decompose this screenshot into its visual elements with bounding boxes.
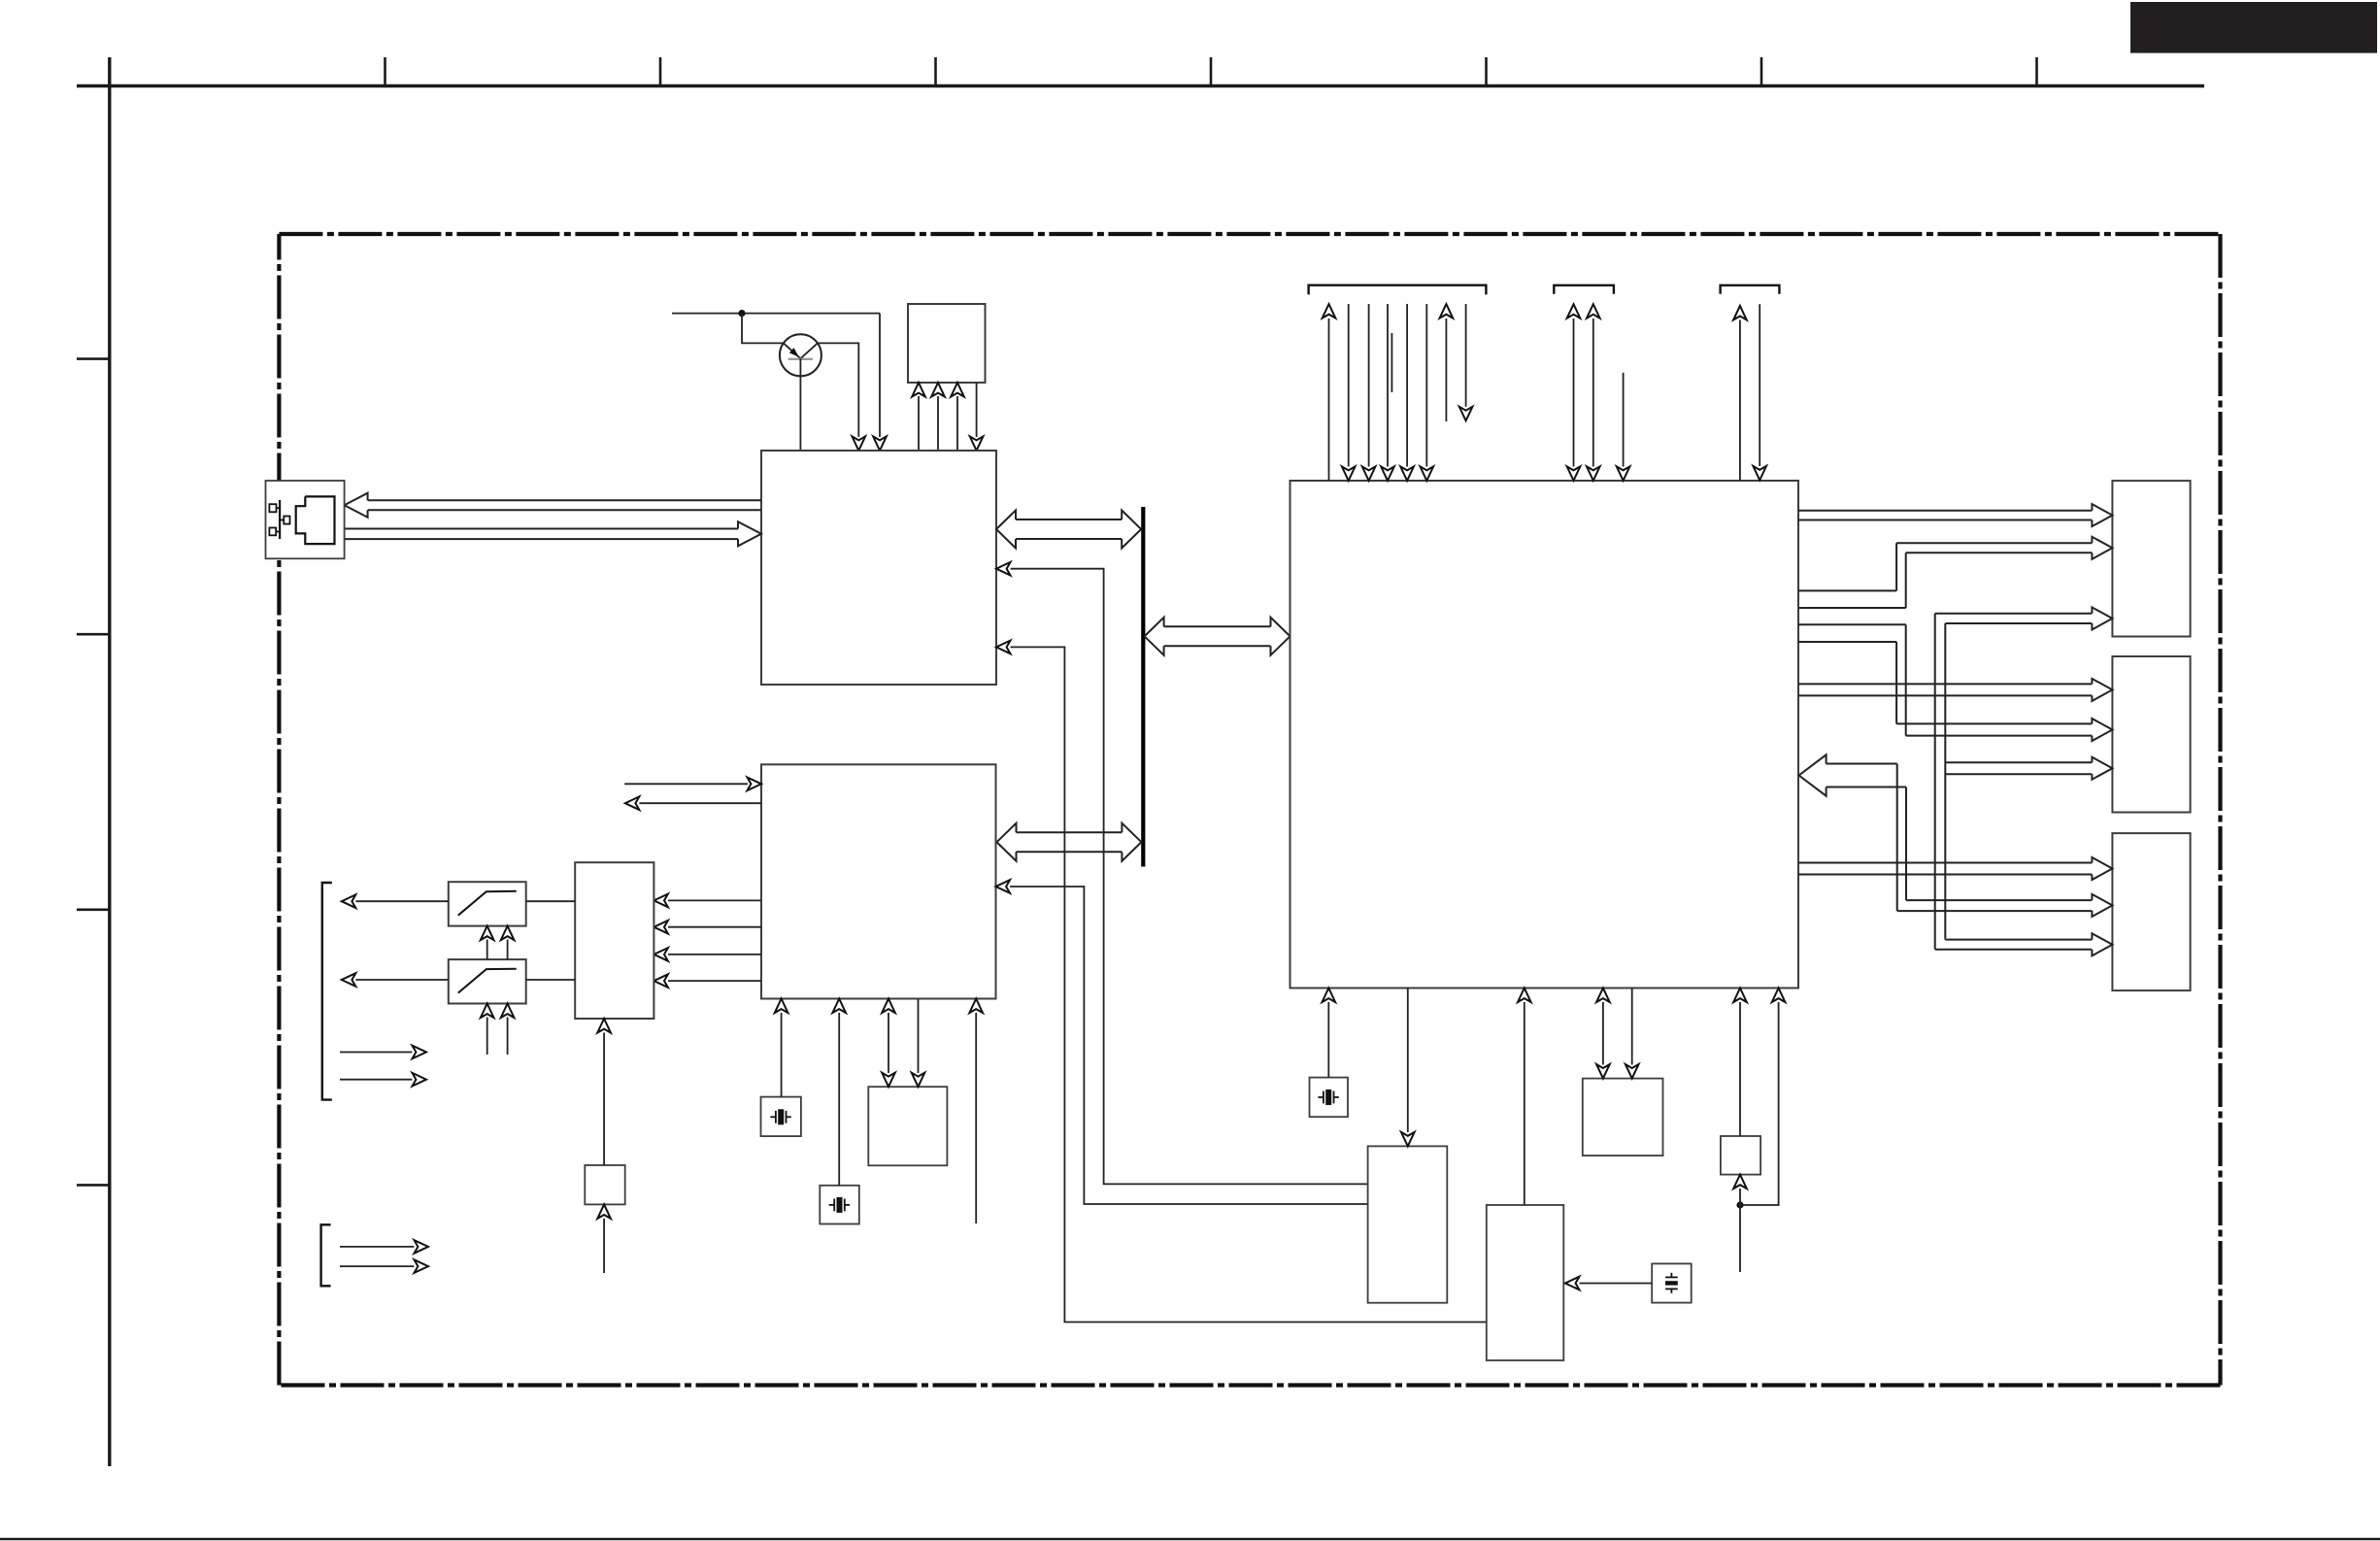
wire remote in (down arrow) [1759,304,1760,466]
wire X2 to U2 (down arrow) [976,383,978,437]
transistor Q1 collector diagonal [800,343,818,358]
hollow arrow connector J1 to U2 [345,528,738,530]
block U2 (digital interface) [761,451,996,685]
bracket serial bus [1554,285,1614,294]
wire key in 1 (down arrow) [1348,304,1350,467]
wire U2 to X2 pin1 (up arrow) [918,396,920,451]
wire control input 1 (right arrow) [340,1246,414,1248]
wire U3 to DAC ch4 (left arrow) [654,974,668,988]
wire serial data (bidirectional arrows) [1573,318,1575,467]
node power junction dot [1736,1201,1743,1208]
block U5 (DAC) [575,862,654,1019]
wire U3 to DAC ch1 (left arrow) [654,894,668,908]
wire Y1 to U3 (up arrow) [781,1013,783,1097]
wire U3 output (left arrow) [625,796,640,810]
wire key in 5 (down arrow) [1425,304,1427,467]
wire aux input 2 (right arrow) [340,1079,412,1081]
crystal Y3 box [1310,1078,1349,1118]
connector J4 box [2112,833,2190,990]
wire PLL1 feedback to U2 (left arrow) [996,562,1011,576]
wire X7 to U4 (up arrow) [1739,1002,1741,1136]
page border top rule [77,84,2204,87]
connector J1 network icon [279,500,281,539]
wire transistor right to block U2 top with arrow [818,343,858,437]
wire key in 4 (down arrow) [1406,304,1408,467]
thick bus arrow U3 to bus [1017,831,1123,833]
hollow wire U4 to J2 line2 (zig up) [1798,589,1896,591]
hollow wire U4 to J3 line2 (zig down) [1798,623,1906,625]
dash-dot board outline (right edge) [2218,234,2222,1386]
wire supply to FL2 pin a (up arrow) [486,1018,488,1055]
wire X1 to DAC (up arrow) [603,1033,605,1166]
bus bar (audio data bus) [1141,507,1145,867]
wire remote out (up arrow) [1739,320,1741,482]
wire PLL2 feedback to U2 (left arrow) [996,641,1011,654]
connector J3 box [2112,656,2190,813]
wire U4 to X6 (arrows both ends) [1602,1002,1604,1065]
connector J2 box [2112,481,2190,636]
box X5 (EEPROM) [1487,1205,1564,1360]
transistor Q1 base bar (grey) [788,358,813,360]
block U3 (DSP) [761,764,996,998]
wire supply to FL2 pin b (up arrow) [507,1018,509,1055]
wire Y2 to U3 (up arrow) [838,1013,840,1186]
top border tick marks [384,57,386,86]
block U4 (system control CPU) [1291,481,1799,988]
oscillator box X2 [908,304,986,383]
wire X5 to U4 (up arrow) [1524,1002,1525,1205]
wire supply to X1 (up arrow) [603,1219,605,1273]
wire U3 to X3 (down arrow) [918,999,920,1074]
wire U4 to X6 (down arrow) [1631,988,1633,1065]
thick bus arrow bus to U4 [1164,625,1271,627]
wire control input 2 (right arrow) [340,1265,414,1267]
dash-dot board outline (top edge) [279,232,2220,236]
hollow arrow U4 to J3 line1 [1798,683,2092,685]
hollow arrow U4 to J4 line1 [1798,862,2092,864]
bracket remote sensor [1721,285,1780,294]
bracket key/display bus [1309,285,1487,295]
crystal Y1 box [761,1097,801,1137]
wire U3 to X3 (arrows both ends) [888,1013,889,1073]
wire FL1 to output (left arrow) [342,894,356,908]
wire supply to FL1 pin a (up arrow) [486,940,488,960]
wire U3 to DAC ch3 (left arrow) [654,948,668,961]
wire DAC to FL2 [526,979,576,981]
wire U3 to U2 status (left arrow) [996,880,1011,893]
wire VCC to block U2 top with arrow [879,314,881,437]
wire key in 3 (down arrow) [1387,304,1389,467]
wire junction to U4 (up arrow) [1740,1002,1779,1205]
wire FL2 to output (left arrow) [342,973,356,987]
wire DAC to FL1 [526,900,576,902]
wire U4 to X4 (down arrow) [1407,988,1409,1133]
bracket control inputs [321,1224,331,1286]
node junction dot [738,310,745,317]
wire dot to transistor base [742,314,784,344]
wire U2 to X2 pin3 (up arrow) [956,396,958,451]
wire G1 to X5 (left arrow) [1565,1277,1580,1290]
wire VCC horizontal [672,313,880,315]
wire serial clock (bidirectional arrows) [1592,318,1594,467]
box X7 (reset) [1721,1136,1760,1175]
crystal G1 box (vertical) [1652,1263,1692,1302]
wire supply to U3 (up arrow) [975,1013,977,1223]
thick bus arrow U2 to bus [1016,519,1122,520]
hollow wire bus to U4 and J4 (big left arrow + zig) [1799,754,1827,795]
dash-dot board outline (left edge) [277,234,281,1386]
wire Y3 to U4 (up arrow) [1327,1002,1329,1078]
filter FL2 (LPF) [449,959,526,1003]
wire display out (up arrow) [1445,318,1447,421]
box X6 (buffer) [1583,1079,1663,1156]
transistor Q1 emitter diagonal with arrow [784,343,801,358]
wire key in 2 (down arrow) [1368,304,1370,467]
box X4 (reset IC) [1368,1146,1448,1302]
crystal Y2 box [820,1186,859,1224]
wire junction to X7 (up arrow) [1739,1189,1741,1205]
filter FL1 (LPF) [449,882,526,925]
hollow arrow U4 to J2 line1 [1798,510,2092,512]
wire U2 to X2 pin2 (up arrow) [937,396,939,451]
wire aux input 1 (right arrow) [340,1052,412,1054]
transistor Q1 body circle [780,334,821,376]
hollow arrow U2 to connector J1 [368,499,761,501]
black title block (redacted) [2130,2,2377,53]
page border left rule [108,57,111,1466]
regulator box X1 [585,1165,624,1204]
dash-dot board outline (bottom edge) [279,1383,2220,1387]
page bottom rule [0,1538,2380,1541]
wire key aux segment [1391,333,1392,392]
wire junction supply stub [1739,1205,1741,1272]
wire display in (down arrow) [1465,304,1467,407]
wire serial enable (down arrow) [1623,373,1625,467]
connector J1 modular jack symbol [296,496,335,544]
wire U3 to DAC ch2 (left arrow) [654,921,668,934]
bracket analog outputs [322,883,332,1100]
wire U4 key out (up arrow) [1328,318,1330,481]
box X3 (clock divider) [868,1087,947,1165]
wire input to U3 (right arrow) [624,783,748,785]
left border tick marks [77,357,110,360]
wire supply to FL1 pin b (up arrow) [507,940,509,960]
connector J1 box [266,481,345,558]
hollow wire J2 line3 to J4 line3 (vertical pair) [1934,614,1936,950]
wire transistor to block U2 top [799,358,801,451]
hollow arrow aux to J3 line3 [1945,761,2092,763]
